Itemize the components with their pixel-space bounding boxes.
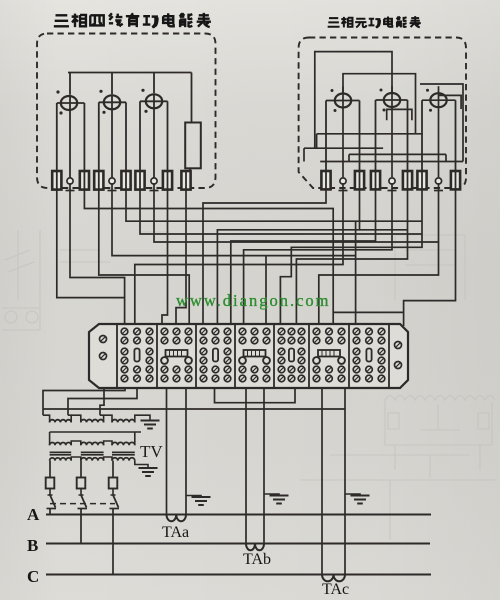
rm element 1 voltage wire — [342, 87, 344, 178]
row1 to ground — [135, 415, 150, 422]
voltage link terminal (left meter) x=154 — [151, 178, 157, 184]
wire W5 — [112, 183, 356, 256]
wire W10 — [176, 189, 186, 326]
block divider — [388, 324, 390, 388]
wire W18 — [319, 183, 439, 326]
TV winding row2 coil 1 — [50, 443, 72, 446]
test terminal block outline — [89, 324, 408, 388]
TV primary star point to ground — [135, 461, 148, 468]
wire rm v3 — [348, 154, 350, 161]
TV winding row2 coil 2 — [81, 442, 104, 445]
wire bus to rectangle — [191, 73, 193, 123]
row2 right riser — [134, 432, 136, 445]
block section 3 terminals — [200, 328, 207, 335]
measuring element coil circle 3 (left meter) — [146, 94, 162, 108]
rm element 2 current legs — [375, 100, 377, 172]
ground TAc — [351, 496, 370, 504]
title: left meter 三相四线有功电能表 — [54, 13, 211, 28]
terminal (right meter) x=422 — [417, 171, 426, 189]
element 2 voltage wire through — [111, 94, 113, 178]
element 3 current legs — [139, 101, 141, 172]
TAb winding bumps — [246, 544, 264, 551]
rm element 2 chord — [376, 99, 408, 101]
switch top lead — [112, 489, 114, 496]
TV primary coil 2 — [81, 458, 104, 461]
switch blade — [81, 495, 87, 508]
switch bottom contact — [110, 508, 120, 510]
terminal (right meter) x=375.5 — [371, 171, 380, 189]
terminal (left meter) x=98.8 — [94, 171, 103, 190]
block divider — [116, 324, 118, 388]
rm element 3 polarity dots — [426, 89, 429, 92]
TV winding row1 coil 2 — [81, 420, 104, 423]
block section 4 terminals — [239, 328, 246, 335]
terminal (left meter) x=126 — [121, 171, 130, 190]
element 1 horizontal chord / current path — [57, 102, 85, 104]
wire W13 ext — [360, 229, 408, 231]
wire rm v4 — [445, 154, 447, 161]
wire link3 — [420, 84, 463, 162]
rm element 3 chord — [422, 99, 456, 101]
block left cap terminals — [100, 336, 107, 343]
wire link4 — [438, 95, 461, 109]
element 2 horizontal chord / current path — [99, 101, 126, 103]
block divider — [195, 324, 197, 388]
wire W7 — [140, 189, 422, 234]
wire W13 — [217, 189, 359, 326]
left meter top bus wire — [68, 72, 192, 74]
switch top lead — [80, 489, 82, 496]
row2 top connector — [50, 431, 141, 433]
element 1 voltage wire through — [69, 95, 71, 178]
wire W6 drop — [355, 221, 357, 326]
wire rm h3 — [349, 153, 446, 155]
row2 link2 — [104, 441, 112, 445]
wire rm h4 — [320, 161, 463, 163]
voltage link terminal (left meter) x=70 — [67, 178, 73, 184]
terminal (right meter) x=407.5 — [403, 171, 412, 189]
svg-text:TAc: TAc — [322, 581, 349, 598]
TV primary coil 3 — [112, 458, 135, 461]
TAa winding bumps — [167, 515, 187, 522]
terminal (left meter) x=140 — [135, 171, 144, 190]
wire rm h2 — [304, 147, 383, 149]
wire W12 — [135, 183, 343, 326]
block divider — [273, 324, 275, 388]
TAb ground tap — [264, 494, 279, 496]
wire long neutral link — [43, 408, 345, 410]
switch bottom contact — [78, 508, 88, 510]
measuring element coil circle 2 (left meter) — [104, 95, 120, 109]
rm element 3 current legs — [421, 100, 423, 172]
wire block-TV 1 — [43, 388, 125, 415]
row2 link1 — [71, 441, 81, 445]
wire W11 — [203, 189, 326, 326]
svg-text:A: A — [27, 505, 40, 524]
wire rm h1 — [317, 133, 423, 135]
rm element 1 polarity dots — [331, 89, 334, 92]
switch top lead — [49, 489, 51, 496]
TAc winding bumps — [322, 575, 345, 582]
element 3 horizontal chord / current path — [140, 100, 168, 102]
wire W6 — [126, 189, 422, 221]
block section 5 terminals — [278, 328, 285, 335]
switch B lead down — [80, 509, 82, 544]
switch blade — [50, 495, 56, 508]
voltage link terminal (left meter) x=112 — [109, 178, 115, 184]
row1 link2b — [104, 415, 112, 422]
wire link block right — [333, 311, 403, 313]
TV winding row1 coil 3 — [112, 420, 135, 423]
TAc secondary leads — [321, 388, 323, 575]
block divider — [156, 324, 158, 388]
terminal (left meter) x=167.5 — [163, 171, 172, 190]
terminal (left meter) x=186 — [181, 171, 190, 190]
wire W14 — [231, 189, 376, 326]
wire W9 — [162, 189, 168, 326]
title: right meter 三相无功电能表 — [328, 16, 421, 28]
rm element 2 voltage wire — [391, 86, 393, 177]
bus A — [46, 514, 431, 516]
row1 left riser — [43, 415, 50, 422]
fuse F2 — [77, 478, 86, 489]
row1 link1b — [71, 415, 81, 422]
switch top stub — [48, 494, 53, 496]
voltage link terminal (right meter) x=343 — [340, 178, 346, 184]
terminal (right meter) x=455.5 — [451, 171, 460, 189]
wire W19 — [404, 189, 456, 326]
block divider — [234, 324, 236, 388]
wire link2 — [343, 74, 416, 134]
svg-text:www.diangon.com: www.diangon.com — [176, 291, 331, 310]
element 2 current legs — [98, 102, 100, 172]
wire link1 — [315, 52, 392, 149]
svg-text:C: C — [27, 567, 39, 586]
measuring element coil circle 2 (right meter) — [384, 93, 400, 107]
wire W5 drop — [265, 256, 267, 326]
TV winding row2 coil 3 — [112, 442, 135, 445]
measuring element coil circle 1 (left meter) — [61, 96, 77, 110]
right meter case (dashed) — [299, 38, 466, 189]
row3 link1 — [71, 457, 81, 461]
row1 link2a — [100, 415, 104, 422]
measuring element coil circle 3 (right meter) — [430, 93, 446, 107]
element 3 polarity dots — [141, 89, 144, 92]
terminal (left meter) x=84.4 — [80, 171, 89, 190]
element 1 current legs — [56, 103, 58, 172]
TV primary leads — [49, 461, 51, 478]
block right cap terminals — [395, 342, 402, 349]
block section 6 terminals — [313, 328, 320, 335]
switch blade — [113, 495, 119, 508]
switch bottom contact — [47, 508, 57, 510]
element W3 drop wire — [153, 73, 155, 94]
svg-text:TV: TV — [140, 442, 163, 461]
row3 link2 — [104, 457, 112, 461]
TV core bars — [50, 451, 72, 453]
TAb secondary leads — [245, 388, 247, 544]
wire el2 voltage jog — [387, 109, 412, 120]
switch top stub — [111, 494, 116, 496]
block section 2 terminals — [161, 328, 168, 335]
switch top stub — [79, 494, 84, 496]
svg-text:TAb: TAb — [243, 551, 271, 568]
svg-text:B: B — [27, 536, 38, 555]
wire W2 — [70, 183, 125, 326]
switch gang dashed link — [50, 503, 115, 505]
element 1 polarity dots — [56, 90, 59, 93]
terminal (right meter) x=326 — [321, 171, 330, 189]
ground TAb — [270, 496, 289, 504]
voltage link terminal (right meter) x=392 — [389, 178, 395, 184]
terminal (right meter) x=359.5 — [355, 171, 364, 189]
TAc ground tap — [345, 494, 360, 496]
measuring element coil circle 1 (right meter) — [335, 94, 351, 108]
rm element 1 current legs — [325, 101, 327, 173]
block divider — [348, 324, 350, 388]
TAa secondary leads — [166, 388, 168, 515]
wire W3 — [84, 189, 333, 326]
wire rm v1 — [316, 134, 318, 148]
wire W4 — [99, 189, 189, 326]
bus B — [46, 543, 430, 545]
switch A lead down — [49, 509, 51, 515]
terminal (left meter) x=56.8 — [52, 171, 61, 190]
rm element 3 voltage wire — [438, 86, 440, 177]
element 3 voltage wire through — [153, 93, 155, 178]
svg-text:TAa: TAa — [162, 524, 189, 541]
TV winding row1 coil 1 — [50, 420, 72, 423]
element W1 drop wire — [69, 73, 71, 95]
element 2 polarity dots — [99, 90, 102, 93]
fuse F1 — [46, 478, 55, 489]
switch C lead down — [112, 509, 114, 575]
wire rm v2 — [303, 148, 305, 161]
wire rectangle to terminal 10 — [189, 168, 191, 172]
element W2 drop wire — [111, 73, 113, 95]
ground TAa — [192, 497, 211, 505]
wire block-TV 3 — [100, 388, 104, 415]
block section 1 terminals — [121, 328, 128, 335]
rm element 1 chord — [326, 100, 360, 102]
rm element 2 polarity dots — [380, 89, 383, 92]
row1 link1a — [68, 415, 71, 422]
row2 left riser — [49, 432, 51, 445]
TAa ground tap — [186, 496, 201, 498]
wire block-TV 2 — [68, 388, 137, 415]
left meter case (dashed) — [37, 34, 216, 189]
wire block jog right — [215, 388, 296, 403]
wire W16 — [296, 189, 407, 326]
ground TV open delta — [141, 421, 160, 429]
bus C — [46, 574, 431, 576]
ground TV primary star — [139, 468, 158, 476]
voltage link terminal (right meter) x=438.5 — [435, 178, 441, 184]
wire W15 — [244, 183, 392, 326]
block section 7 terminals — [353, 328, 360, 335]
block divider — [308, 324, 310, 388]
wire W17 — [280, 189, 422, 326]
voltage element rectangle (left meter) — [185, 123, 201, 169]
fuse F3 — [109, 478, 118, 489]
wire W1 — [57, 189, 125, 298]
wire W8 — [154, 183, 439, 242]
TV primary coil 1 — [50, 458, 72, 461]
